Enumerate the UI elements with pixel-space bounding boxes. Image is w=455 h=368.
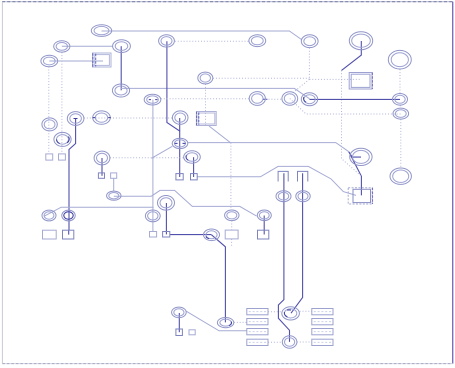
wire net30 bbox=[205, 84, 207, 126]
pad S14 bbox=[298, 171, 308, 181]
wire net11b bbox=[152, 146, 173, 158]
wire net35 bbox=[186, 311, 247, 331]
pad P40 bbox=[282, 336, 297, 348]
board frame top border bbox=[2, 1, 453, 3]
wire net25 bbox=[308, 48, 310, 80]
component R1 bbox=[93, 53, 112, 67]
wire net21b bbox=[231, 239, 233, 246]
wire net32 bbox=[399, 69, 402, 168]
pad CR2 bbox=[312, 319, 333, 325]
pad P2 bbox=[54, 41, 70, 52]
wire net21 bbox=[231, 221, 233, 230]
pad P30 bbox=[42, 210, 56, 221]
wire net52 R2 exit bbox=[209, 126, 230, 143]
wire net31 bbox=[213, 77, 309, 79]
pad P32 bbox=[225, 210, 239, 221]
pad P6 bbox=[249, 35, 266, 47]
pad S8 bbox=[63, 230, 74, 239]
pad P22 bbox=[172, 138, 188, 148]
board frame right border bbox=[452, 2, 454, 364]
mark P36 bbox=[206, 237, 209, 239]
mark P39 bbox=[284, 310, 291, 317]
board frame left border bbox=[1, 2, 3, 364]
pad CL1 bbox=[247, 309, 268, 315]
pad P28 bbox=[107, 191, 121, 200]
mark P38 bbox=[229, 322, 232, 326]
pad P39 bbox=[282, 307, 300, 320]
pad S11 bbox=[225, 230, 238, 239]
mark P31 bbox=[64, 212, 73, 219]
wire net6 bbox=[120, 46, 122, 90]
pad P8 bbox=[388, 50, 411, 69]
pad S4 bbox=[111, 173, 117, 178]
wire net9 bbox=[175, 40, 249, 42]
wire net7 bbox=[121, 88, 310, 98]
pad P1 bbox=[91, 25, 111, 37]
pad S7 bbox=[43, 230, 57, 239]
mark P22 bbox=[175, 142, 186, 144]
pad P15 bbox=[393, 94, 408, 106]
wire net36 bbox=[178, 313, 180, 332]
wire net23c bbox=[349, 152, 362, 196]
pad CR4 bbox=[312, 339, 333, 345]
pad P3b bbox=[159, 35, 175, 47]
wire net47 bbox=[193, 157, 195, 177]
pad CL4 bbox=[247, 339, 268, 345]
pad P25 bbox=[350, 148, 372, 165]
pad P33 bbox=[257, 210, 271, 221]
pad P36 bbox=[204, 229, 220, 241]
component R4 bbox=[348, 188, 372, 204]
wire net23 bbox=[188, 143, 349, 152]
wire net12 bbox=[84, 117, 172, 119]
pad P13 bbox=[282, 92, 298, 106]
wire net18 bbox=[45, 207, 154, 216]
pad P26 bbox=[390, 168, 411, 184]
pad S13 bbox=[278, 171, 288, 181]
wire net23b bbox=[349, 152, 361, 157]
pad S10 bbox=[163, 232, 170, 238]
pad P35 bbox=[296, 191, 310, 202]
wire net34 bbox=[291, 173, 303, 313]
pad P16 bbox=[393, 108, 409, 119]
pad S12 bbox=[258, 230, 269, 239]
pad P18 bbox=[93, 111, 111, 124]
wire net38c bbox=[297, 341, 312, 343]
wire net2 bbox=[62, 45, 113, 47]
component R3 bbox=[349, 73, 372, 90]
wire net11 bbox=[152, 100, 154, 232]
mark P21 bbox=[57, 137, 70, 144]
component R2 bbox=[196, 112, 216, 126]
pad P27 bbox=[158, 196, 175, 211]
mark P12 bbox=[263, 98, 267, 100]
pad S6 bbox=[191, 174, 198, 180]
wire net22 bbox=[263, 216, 265, 235]
pad S5 bbox=[176, 174, 183, 180]
pad P21 bbox=[54, 132, 71, 146]
wire net37 bbox=[234, 321, 247, 323]
wire net10b bbox=[266, 98, 282, 100]
pad S15 bbox=[176, 329, 183, 336]
wire net20 bbox=[230, 143, 232, 210]
pad P19 bbox=[172, 111, 188, 124]
wire net16 bbox=[113, 178, 115, 191]
pad S9 bbox=[150, 232, 157, 238]
pad P31 bbox=[62, 210, 75, 221]
wire net15 bbox=[110, 157, 184, 159]
pad S2 bbox=[59, 154, 66, 160]
wire net38b bbox=[300, 310, 312, 312]
mark P14 bbox=[304, 97, 307, 102]
pad P17 bbox=[67, 112, 84, 126]
wire net28 bbox=[290, 99, 401, 115]
pad CL2 bbox=[247, 319, 268, 325]
wire net19 bbox=[166, 203, 225, 322]
mark P18 bbox=[93, 117, 111, 119]
pad P12 bbox=[249, 92, 265, 106]
wire net5 bbox=[61, 52, 63, 154]
pad P11 bbox=[144, 94, 161, 105]
pad P14 bbox=[301, 93, 317, 106]
wire net26b bbox=[342, 70, 362, 176]
wire net3 bbox=[49, 60, 103, 62]
pad P4 bbox=[41, 55, 58, 66]
pad P29 bbox=[145, 210, 160, 222]
wire net8b bbox=[179, 118, 181, 131]
pad P24 bbox=[94, 151, 110, 165]
wire net17 bbox=[114, 190, 257, 216]
wire net8 bbox=[167, 41, 180, 177]
mark P23 bbox=[186, 155, 188, 160]
wire net38a bbox=[268, 311, 282, 313]
pad P10 bbox=[112, 84, 129, 97]
pad P23 bbox=[184, 151, 201, 163]
mark P17 bbox=[74, 118, 78, 120]
pad P7 bbox=[301, 35, 318, 48]
wire net10 bbox=[161, 98, 249, 100]
pad S16 bbox=[189, 330, 195, 335]
pad CR1 bbox=[312, 309, 333, 315]
wire net26a bbox=[342, 41, 362, 70]
wire net25b bbox=[309, 78, 361, 80]
wire net24 bbox=[197, 166, 356, 195]
pad P3 bbox=[113, 40, 131, 53]
pad P38 bbox=[217, 318, 233, 328]
pad P20 bbox=[42, 118, 57, 131]
pad CL3 bbox=[247, 329, 268, 335]
mark P11 bbox=[149, 99, 158, 101]
wire net1 a bbox=[102, 31, 303, 40]
board frame bottom border bbox=[2, 363, 452, 365]
wire net29 bbox=[290, 79, 309, 95]
wire net14 bbox=[101, 158, 103, 176]
pad S1 bbox=[46, 154, 53, 160]
pad CR3 bbox=[312, 329, 333, 335]
pad P34 bbox=[276, 191, 291, 202]
pad P9 bbox=[198, 72, 213, 84]
wire net33 bbox=[278, 173, 289, 342]
pad S3 bbox=[98, 173, 104, 178]
pad P5 bbox=[349, 32, 372, 50]
wire net38d bbox=[268, 341, 282, 343]
wire net4 bbox=[48, 67, 50, 154]
pad P37 bbox=[172, 307, 187, 318]
wire net27 bbox=[310, 98, 401, 100]
wire net13 bbox=[69, 119, 76, 235]
